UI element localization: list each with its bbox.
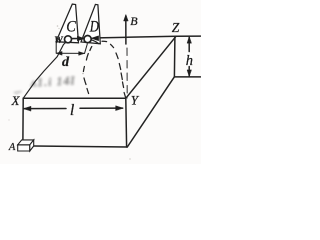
- slab edge X to back-left corner (top face left edge): [23, 42, 66, 98]
- slab front-left vertical edge: [22, 98, 24, 140]
- slab back edge through holes to Z, extended right as h top tick: [91, 36, 200, 38]
- white backing for h: [185, 53, 193, 65]
- slab bottom front edge: [34, 146, 128, 147]
- svg-text:A: A: [8, 142, 16, 153]
- hole W (circle on plate C): [65, 36, 72, 43]
- arrowhead after O (pointing left): [91, 36, 98, 41]
- svg-text:l: l: [70, 102, 75, 119]
- svg-text:B: B: [130, 14, 138, 28]
- svg-text:W: W: [54, 36, 63, 46]
- svg-text:Y: Y: [131, 93, 140, 108]
- hole O (circle on plate D): [84, 36, 91, 43]
- slab bottom right edge (to back): [127, 77, 174, 147]
- d dimension extension line right: [85, 44, 88, 54]
- arrowhead into O (pointing right): [78, 36, 85, 41]
- slab front-right vertical edge: [125, 98, 128, 147]
- small cube at corner A: [18, 140, 34, 151]
- scan speckles: [8, 25, 131, 160]
- dashed trajectory dome: [92, 40, 99, 44]
- slab edge Y-Z (top face right edge): [126, 36, 176, 98]
- l dimension double arrow: [24, 108, 66, 110]
- svg-text:C: C: [66, 18, 76, 35]
- slab right-back vertical edge: [173, 37, 176, 77]
- slab top edge X-Y (front edge of top face): [23, 97, 126, 99]
- d dimension double arrow: [57, 52, 85, 54]
- B field arrow (solid above slab): [125, 16, 127, 44]
- B arrowhead: [124, 15, 128, 21]
- svg-text:h: h: [186, 53, 193, 69]
- h bottom tick: [174, 76, 200, 78]
- plate D: [81, 4, 100, 43]
- svg-text:X: X: [11, 93, 21, 108]
- svg-text:Z: Z: [172, 20, 180, 35]
- h dimension double arrow: [188, 37, 190, 51]
- watermark faint print-through: [13, 75, 76, 95]
- plate C: [56, 4, 79, 43]
- svg-text:d: d: [62, 55, 70, 70]
- B field line dashed down to Y: [126, 48, 128, 98]
- svg-text:ʌ1.i 14Ι: ʌ1.i 14Ι: [31, 75, 76, 89]
- beam line from hole W to hole O: [72, 38, 80, 40]
- svg-text:D: D: [89, 19, 99, 36]
- d dimension extension line left: [55, 43, 57, 53]
